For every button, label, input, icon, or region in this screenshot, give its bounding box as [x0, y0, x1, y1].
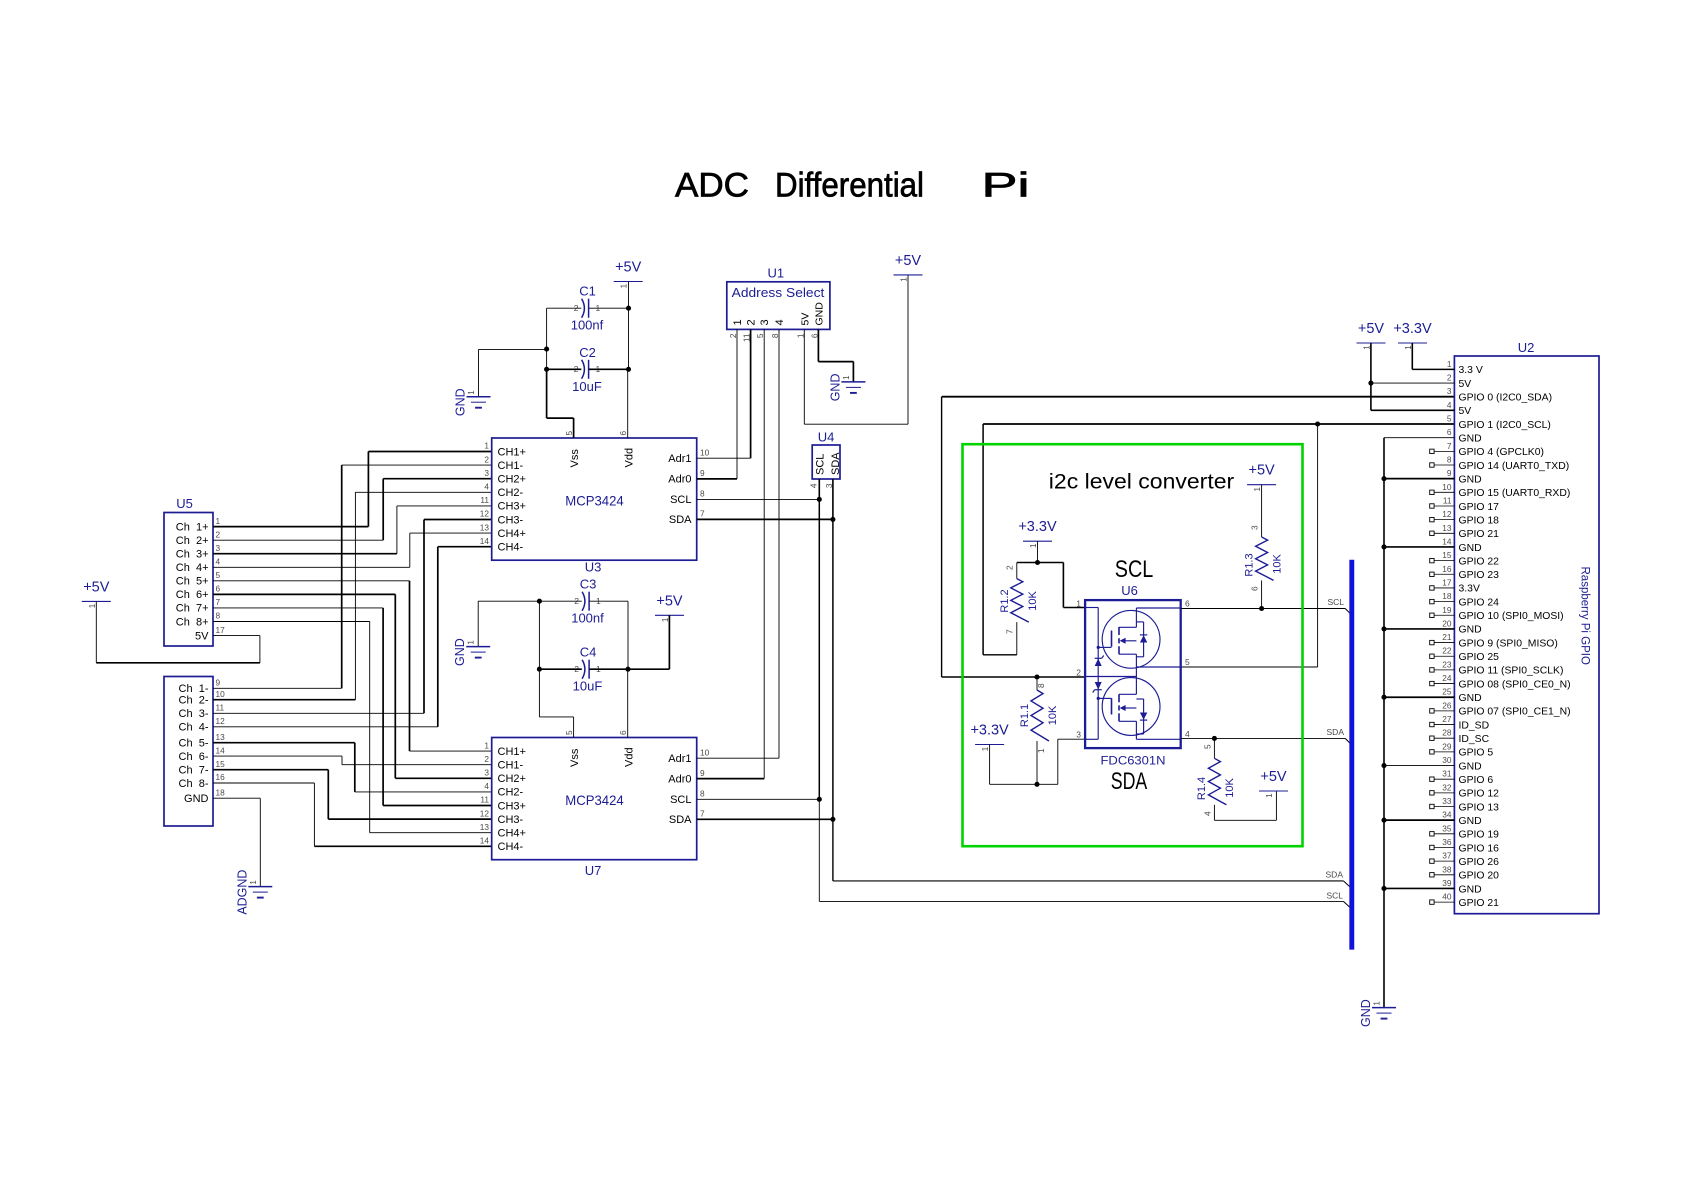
svg-text:+5V: +5V [615, 260, 642, 276]
ground (U2) [1372, 1007, 1396, 1009]
svg-text:CH4+: CH4+ [498, 528, 526, 540]
svg-text:3: 3 [1076, 730, 1081, 740]
net Ch5- -> U7 CH2- [213, 742, 355, 744]
svg-text:MCP3424: MCP3424 [565, 493, 624, 509]
svg-text:Adr1: Adr1 [668, 753, 691, 765]
svg-text:31: 31 [1442, 769, 1452, 779]
wire GND pin18 to ADGND [213, 797, 260, 799]
svg-text:22: 22 [1442, 646, 1452, 656]
junction C2 pin2 [544, 367, 549, 372]
svg-text:Ch 7+: Ch 7+ [176, 603, 209, 615]
svg-text:GND: GND [454, 388, 468, 416]
svg-text:+5V: +5V [83, 579, 110, 595]
svg-text:U7: U7 [585, 863, 602, 878]
junction C4 pin1 [625, 667, 630, 672]
svg-text:1: 1 [620, 283, 629, 288]
svg-text:11: 11 [480, 495, 489, 505]
wire +5V to U5 pin17 [95, 601, 97, 662]
junction GND pin20 [1381, 626, 1386, 631]
svg-text:3: 3 [484, 468, 489, 478]
svg-text:Address Select: Address Select [732, 286, 825, 300]
junction 5V pin2 [1368, 380, 1373, 385]
svg-text:1: 1 [795, 333, 805, 338]
U2 GND rail [1383, 438, 1385, 1008]
net Ch1+ -> U3 CH1+ [213, 526, 368, 528]
svg-text:Ch 8+: Ch 8+ [176, 616, 209, 628]
wire U1 pin3 to U7 Adr0 [763, 329, 765, 778]
svg-text:GPIO 4 (GPCLK0): GPIO 4 (GPCLK0) [1459, 447, 1544, 458]
svg-text:Vdd: Vdd [623, 448, 635, 468]
svg-text:5V: 5V [195, 630, 209, 642]
svg-text:5V: 5V [1459, 406, 1472, 417]
junction GND pin9 [1381, 476, 1386, 481]
wire U6 pin5 riser [1317, 424, 1319, 667]
svg-text:21: 21 [1442, 632, 1452, 642]
svg-text:+5V: +5V [895, 253, 922, 269]
svg-text:1: 1 [900, 277, 909, 282]
svg-text:GPIO 11 (SPI0_SCLK): GPIO 11 (SPI0_SCLK) [1459, 666, 1564, 677]
power +3.3V (lower left) [975, 744, 1004, 746]
svg-text:U2: U2 [1518, 340, 1535, 355]
svg-text:3.3V: 3.3V [1459, 584, 1480, 595]
svg-text:40: 40 [1442, 892, 1452, 902]
svg-text:GPIO 0 (I2C0_SDA): GPIO 0 (I2C0_SDA) [1459, 393, 1553, 404]
svg-text:29: 29 [1442, 741, 1452, 751]
power +3.3V (U2) [1398, 342, 1427, 344]
svg-text:Adr0: Adr0 [668, 474, 691, 486]
svg-text:14: 14 [1442, 536, 1452, 546]
svg-text:1: 1 [1373, 1001, 1382, 1006]
svg-text:1: 1 [1076, 599, 1081, 609]
svg-text:19: 19 [1442, 605, 1452, 615]
svg-text:7: 7 [1005, 629, 1015, 634]
svg-text:+3.3V: +3.3V [970, 723, 1009, 739]
svg-text:GND: GND [1459, 693, 1482, 704]
svg-text:GPIO 15 (UART0_RXD): GPIO 15 (UART0_RXD) [1459, 488, 1571, 499]
power +5V (above C1) [614, 281, 643, 283]
svg-text:R1.1: R1.1 [1019, 704, 1031, 727]
svg-text:GPIO 23: GPIO 23 [1459, 570, 1500, 581]
svg-text:C1: C1 [579, 284, 596, 299]
svg-text:8: 8 [770, 333, 780, 338]
net Ch6+ -> U7 CH2+ [213, 593, 395, 595]
wire U4 SDA stub [832, 479, 834, 519]
net Ch7+ -> U7 CH3+ [213, 607, 383, 609]
svg-text:8: 8 [1036, 683, 1046, 688]
svg-text:1: 1 [1029, 543, 1038, 548]
connector U2 Raspberry Pi GPIO [1454, 356, 1599, 914]
svg-text:Vdd: Vdd [623, 747, 635, 767]
svg-text:18: 18 [1442, 591, 1452, 601]
svg-text:4: 4 [1447, 400, 1452, 410]
svg-text:Ch 6+: Ch 6+ [176, 589, 209, 601]
svg-text:CH1-: CH1- [498, 760, 524, 772]
svg-text:16: 16 [1442, 564, 1452, 574]
svg-text:R1.2: R1.2 [999, 589, 1011, 612]
wire U3 Vss supply [573, 418, 575, 438]
wire SCL column lower + bottom run [818, 799, 820, 901]
svg-text:3: 3 [216, 543, 221, 553]
junction C3 pin2 [537, 599, 542, 604]
svg-text:27: 27 [1442, 714, 1452, 724]
svg-text:39: 39 [1442, 878, 1452, 888]
svg-text:10K: 10K [1047, 705, 1059, 725]
svg-text:4: 4 [809, 483, 819, 488]
svg-text:CH1+: CH1+ [498, 446, 526, 458]
svg-text:6: 6 [618, 730, 628, 735]
svg-text:Ch 4+: Ch 4+ [176, 562, 209, 574]
wire U7 Adr0 to U1 pin3 [697, 778, 765, 780]
wire U7 SDA [697, 818, 833, 820]
svg-text:7: 7 [216, 597, 221, 607]
svg-text:10uF: 10uF [572, 379, 602, 394]
svg-text:9: 9 [700, 768, 705, 778]
resistor R1.3 10K [1247, 484, 1276, 486]
svg-text:1: 1 [88, 603, 97, 608]
junction R1.4 top [1212, 736, 1217, 741]
svg-text:R1.4: R1.4 [1196, 777, 1208, 800]
svg-text:12: 12 [1442, 509, 1452, 519]
svg-text:11: 11 [1443, 495, 1452, 505]
svg-text:1: 1 [1253, 487, 1262, 492]
svg-text:1: 1 [1265, 793, 1274, 798]
svg-text:10: 10 [216, 689, 226, 699]
connector U5 [164, 513, 213, 647]
net Ch7- -> U7 CH3- [213, 769, 328, 771]
svg-text:25: 25 [1442, 687, 1452, 697]
svg-text:GND: GND [1359, 999, 1373, 1027]
svg-text:GPIO 12: GPIO 12 [1459, 789, 1500, 800]
wire to GND symbol [479, 348, 547, 350]
svg-text:GND: GND [1459, 474, 1482, 485]
svg-text:9: 9 [216, 678, 221, 688]
wire U6 pin4 to bus (SDA) [1181, 737, 1215, 739]
net Ch2- -> U3 CH2- [213, 699, 355, 701]
svg-text:GPIO 24: GPIO 24 [1459, 597, 1500, 608]
svg-text:SCL: SCL [815, 454, 827, 475]
wire U7 Vdd supply [627, 669, 629, 737]
wire SCL-pi from U2 pin5 [983, 423, 1454, 425]
svg-text:GND: GND [1459, 884, 1482, 895]
net Ch6- -> U7 CH1- [213, 755, 342, 757]
svg-text:23: 23 [1442, 659, 1452, 669]
ground (C3/C4) [466, 646, 490, 648]
svg-text:36: 36 [1442, 837, 1452, 847]
svg-text:U5: U5 [176, 496, 193, 511]
svg-text:C2: C2 [579, 345, 596, 360]
svg-text:5: 5 [1203, 744, 1213, 749]
svg-text:CH3-: CH3- [498, 814, 524, 826]
svg-text:U3: U3 [585, 560, 602, 575]
svg-text:Raspberry Pi GPIO: Raspberry Pi GPIO [1579, 567, 1591, 665]
svg-text:8: 8 [700, 489, 705, 499]
junction GND pin25 [1381, 695, 1386, 700]
svg-text:GPIO 21: GPIO 21 [1459, 898, 1500, 909]
svg-text:7: 7 [700, 509, 705, 519]
svg-text:CH3+: CH3+ [498, 800, 526, 812]
svg-text:11: 11 [480, 795, 489, 805]
svg-text:3.3 V: 3.3 V [1459, 365, 1483, 376]
svg-text:5V: 5V [799, 313, 811, 326]
junction U6 pin5 riser [1315, 421, 1320, 426]
svg-text:Ch 3+: Ch 3+ [176, 549, 209, 561]
svg-text:28: 28 [1442, 728, 1452, 738]
svg-text:11: 11 [216, 703, 225, 713]
wire C1/C2 left vertical [546, 308, 548, 349]
U6 pin2 internal [1085, 676, 1136, 678]
svg-text:C3: C3 [580, 577, 597, 592]
svg-text:GPIO 17: GPIO 17 [1459, 502, 1500, 513]
wire SDA column [832, 519, 834, 819]
wire C3/C4 left vertical [538, 601, 540, 669]
junction C4 pin2 [537, 667, 542, 672]
svg-text:GPIO 22: GPIO 22 [1459, 556, 1500, 567]
svg-text:10: 10 [1442, 482, 1452, 492]
svg-text:100nf: 100nf [571, 318, 604, 333]
IC U6 FDC6301N [1085, 600, 1181, 748]
svg-text:37: 37 [1442, 851, 1452, 861]
net Ch5+ -> U7 CH1+ [213, 580, 410, 582]
svg-text:GPIO 6: GPIO 6 [1459, 775, 1494, 786]
svg-text:20: 20 [1442, 618, 1452, 628]
capacitor C2 10uF [582, 360, 585, 379]
svg-text:1: 1 [467, 390, 476, 395]
bus (blue) [1349, 560, 1354, 950]
junction GND pin30 [1381, 763, 1386, 768]
svg-text:2: 2 [728, 333, 738, 338]
svg-text:U4: U4 [818, 430, 835, 445]
svg-text:4: 4 [484, 781, 489, 791]
svg-text:8: 8 [700, 789, 705, 799]
svg-text:2: 2 [746, 319, 758, 325]
svg-text:6: 6 [1447, 427, 1452, 437]
svg-text:6: 6 [1250, 586, 1260, 591]
svg-text:1: 1 [484, 441, 489, 451]
power +5V (left) [82, 600, 111, 602]
U6 upper MOSFET [1102, 610, 1160, 668]
resistor R1.1 10K [1036, 677, 1038, 690]
U6 zener diodes [1095, 659, 1102, 667]
svg-text:CH3+: CH3+ [498, 501, 526, 513]
wire SDA column lower + bottom run [832, 819, 834, 881]
U6 lower MOSFET [1102, 678, 1160, 736]
svg-text:14: 14 [480, 836, 490, 846]
svg-text:4: 4 [774, 319, 786, 325]
svg-text:GPIO 14 (UART0_TXD): GPIO 14 (UART0_TXD) [1459, 461, 1570, 472]
net Ch8- -> U7 CH4- [213, 782, 314, 784]
U6 lower body diode [1143, 699, 1145, 734]
svg-text:FDC6301N: FDC6301N [1101, 756, 1166, 768]
svg-text:10K: 10K [1272, 554, 1284, 574]
svg-text:R1.3: R1.3 [1244, 553, 1256, 576]
junction R1.3 bottom [1259, 606, 1264, 611]
junction U7 SCL [817, 797, 822, 802]
svg-text:GPIO 13: GPIO 13 [1459, 802, 1500, 813]
wire +3.3V to U6 pin3 [989, 745, 991, 785]
svg-text:30: 30 [1442, 755, 1452, 765]
svg-text:3: 3 [1447, 386, 1452, 396]
svg-text:2: 2 [484, 754, 489, 764]
junction GND pin14 [1381, 544, 1386, 549]
svg-text:GPIO 07 (SPI0_CE1_N): GPIO 07 (SPI0_CE1_N) [1459, 707, 1571, 718]
svg-text:SCL: SCL [670, 794, 691, 806]
svg-text:CH2-: CH2- [498, 787, 524, 799]
svg-text:2: 2 [1005, 565, 1015, 570]
svg-text:+3.3V: +3.3V [1393, 321, 1432, 337]
IC U3 MCP3424 [492, 438, 697, 560]
svg-text:15: 15 [216, 759, 226, 769]
U6 internal left rail [1097, 608, 1099, 740]
svg-text:GND: GND [1459, 543, 1482, 554]
svg-text:MCP3424: MCP3424 [565, 792, 624, 808]
svg-text:SCL: SCL [1115, 556, 1154, 583]
svg-text:13: 13 [216, 732, 226, 742]
svg-text:GPIO 5: GPIO 5 [1459, 748, 1494, 759]
junction SDA [830, 517, 835, 522]
svg-text:6: 6 [216, 584, 221, 594]
net Ch4- -> U3 CH4- [213, 726, 438, 728]
svg-text:17: 17 [1442, 577, 1452, 587]
svg-text:4: 4 [1185, 729, 1190, 739]
svg-text:GPIO 26: GPIO 26 [1459, 857, 1500, 868]
svg-text:12: 12 [480, 808, 490, 818]
wire U4 SCL stub [818, 479, 820, 499]
svg-text:+5V: +5V [656, 593, 683, 609]
svg-text:ADGND: ADGND [235, 870, 249, 915]
svg-text:33: 33 [1442, 796, 1452, 806]
svg-text:7: 7 [1447, 441, 1452, 451]
wire U6 pin6 to bus (SCL) [1181, 608, 1262, 610]
bus entry ramps (bottom) [1343, 881, 1350, 888]
net Ch8+ -> U7 CH4+ [213, 621, 370, 623]
wire to GND symbol (C3) [478, 600, 539, 602]
svg-text:2: 2 [1076, 668, 1081, 678]
svg-text:GND: GND [1459, 625, 1482, 636]
svg-text:38: 38 [1442, 864, 1452, 874]
svg-text:GND: GND [1459, 433, 1482, 444]
svg-text:GPIO 21: GPIO 21 [1459, 529, 1500, 540]
ground (U1) [841, 381, 865, 383]
svg-text:U6: U6 [1121, 583, 1138, 598]
wire U3 SCL [697, 498, 820, 500]
svg-text:ID_SD: ID_SD [1459, 720, 1490, 731]
svg-text:GPIO 19: GPIO 19 [1459, 830, 1500, 841]
wire U3 Vdd supply [627, 369, 629, 438]
junction SCL [817, 497, 822, 502]
svg-text:12: 12 [216, 716, 226, 726]
svg-text:1: 1 [842, 375, 851, 380]
svg-text:5V: 5V [1459, 379, 1472, 390]
svg-text:2: 2 [484, 454, 489, 464]
svg-text:Ch 8-: Ch 8- [179, 778, 209, 790]
power +5V (above U1) [894, 274, 923, 276]
svg-text:SDA: SDA [669, 814, 692, 826]
svg-text:8: 8 [216, 611, 221, 621]
wire U7 Vss supply [573, 717, 575, 738]
wire U1 pin1 to Adr0 [736, 329, 738, 479]
net Ch1- -> U3 CH1- [213, 687, 342, 689]
svg-text:26: 26 [1442, 700, 1452, 710]
svg-text:5: 5 [216, 570, 221, 580]
wire U3 Adr1 to U1 pin2 [697, 457, 751, 459]
svg-text:100nf: 100nf [571, 611, 604, 626]
svg-text:7: 7 [700, 809, 705, 819]
svg-text:Adr0: Adr0 [668, 773, 691, 785]
wire U1 pin2 to Adr1 [750, 329, 752, 458]
power +5V (right of C3) [655, 614, 684, 616]
svg-text:SCL: SCL [1327, 597, 1344, 607]
wire +3.3V to U6 pin1 [1038, 562, 1064, 564]
svg-text:Ch 6-: Ch 6- [179, 751, 209, 763]
wire U7 Adr1 to U1 pin4 [697, 757, 779, 759]
svg-text:GND: GND [453, 638, 467, 666]
svg-text:+5V: +5V [1248, 463, 1275, 479]
svg-text:SDA: SDA [1326, 870, 1344, 880]
svg-text:Ch 5+: Ch 5+ [176, 576, 209, 588]
svg-text:GND: GND [1459, 816, 1482, 827]
svg-text:Ch 7-: Ch 7- [179, 765, 209, 777]
wire C3 right vertical [627, 601, 629, 669]
svg-text:1: 1 [484, 740, 489, 750]
svg-text:CH2-: CH2- [498, 487, 524, 499]
svg-text:GPIO 10 (SPI0_MOSI): GPIO 10 (SPI0_MOSI) [1459, 611, 1564, 622]
svg-text:15: 15 [1442, 550, 1452, 560]
svg-text:4: 4 [1203, 811, 1213, 816]
svg-text:CH1-: CH1- [498, 460, 524, 472]
svg-text:Pi: Pi [982, 167, 1030, 205]
svg-text:2: 2 [1447, 373, 1452, 383]
resistor R1.2 10K [1016, 622, 1018, 655]
svg-text:Vss: Vss [569, 449, 581, 468]
green frame i2c level converter [963, 444, 1303, 846]
svg-text:SDA: SDA [1111, 768, 1148, 795]
connector lower (Ch-) [164, 677, 213, 827]
svg-text:GPIO 18: GPIO 18 [1459, 515, 1500, 526]
resistor R1.4 10K [1213, 738, 1215, 758]
svg-text:CH1+: CH1+ [498, 746, 526, 758]
junction R1.1 bottom [1034, 782, 1039, 787]
svg-text:24: 24 [1442, 673, 1452, 683]
svg-text:CH2+: CH2+ [498, 773, 526, 785]
junction U7 SDA [830, 817, 835, 822]
svg-text:5: 5 [755, 333, 765, 338]
svg-text:10uF: 10uF [573, 679, 603, 694]
junction GND pin34 [1381, 818, 1386, 823]
svg-text:6: 6 [1185, 599, 1190, 609]
capacitor C4 10uF [582, 660, 585, 679]
wire U1 GND pin [817, 329, 819, 361]
power +5V (U2) [1357, 342, 1386, 344]
svg-text:CH4+: CH4+ [498, 828, 526, 840]
svg-text:Ch 4-: Ch 4- [179, 722, 209, 734]
junction GND tap [544, 347, 549, 352]
svg-text:4: 4 [216, 557, 221, 567]
svg-text:+3.3V: +3.3V [1018, 519, 1057, 535]
svg-text:Ch 3-: Ch 3- [179, 708, 209, 720]
svg-text:4: 4 [484, 482, 489, 492]
connector U4 [812, 445, 840, 479]
svg-text:ADC: ADC [675, 167, 749, 205]
svg-text:6: 6 [618, 431, 628, 436]
svg-text:+5V: +5V [1260, 769, 1287, 785]
svg-text:5: 5 [1185, 657, 1190, 667]
svg-text:1: 1 [981, 746, 990, 751]
svg-text:Ch 1+: Ch 1+ [176, 521, 209, 533]
svg-text:1: 1 [216, 516, 221, 526]
junction GND pin39 [1381, 886, 1386, 891]
svg-text:10: 10 [700, 747, 710, 757]
capacitor C1 100nf [582, 299, 585, 318]
